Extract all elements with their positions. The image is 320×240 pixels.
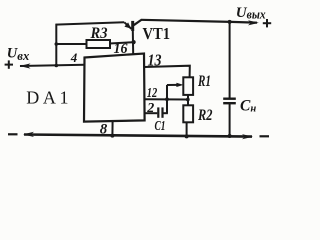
- IC DA1 box: [84, 54, 145, 122]
- svg-text:R2: R2: [197, 107, 212, 124]
- svg-text:Uвых: Uвых: [236, 5, 266, 21]
- transistor VT1 emitter arrow: [124, 22, 131, 28]
- wire Cн bottom branch: [229, 103, 231, 136]
- node pin8 / rail: [110, 134, 114, 138]
- svg-text:R3: R3: [90, 25, 108, 42]
- wire vertical branch from input up to emitter line: [55, 24, 57, 66]
- capacitor Cн: [223, 99, 236, 104]
- node output / Cн: [228, 20, 232, 24]
- wire pin 13 line to R1 top: [145, 66, 190, 78]
- terminal arrow input (left): [20, 63, 31, 68]
- potentiometer R1 wiper arrow: [167, 84, 179, 86]
- node R2 / rail: [185, 134, 189, 138]
- svg-text:R1: R1: [197, 73, 211, 90]
- node R1-R2 / pin12: [186, 98, 190, 102]
- wire R1-R2 link: [187, 95, 189, 106]
- node Cн / rail: [228, 134, 232, 138]
- svg-text:16: 16: [114, 41, 129, 57]
- wire R3 right lead to base node: [110, 42, 134, 43]
- svg-text:Cн: Cн: [240, 97, 256, 114]
- svg-text:VT1: VT1: [143, 24, 171, 43]
- svg-text:2: 2: [146, 101, 154, 116]
- wire pin 2 lead to C1: [145, 112, 158, 114]
- node input tee: [55, 64, 59, 68]
- label + input: [5, 60, 13, 68]
- dash continuation rail left: [8, 133, 18, 135]
- svg-text:C1: C1: [155, 119, 166, 134]
- svg-text:13: 13: [148, 51, 162, 70]
- wire C1 right lead: [163, 112, 168, 114]
- wire pin 12 line: [145, 98, 188, 100]
- node R3 tee: [55, 42, 59, 46]
- wire R2 bottom lead: [186, 122, 188, 136]
- terminal arrow rail left: [23, 132, 34, 137]
- wire base lead / pin 16 stub: [132, 31, 134, 55]
- dash continuation rail right: [260, 135, 270, 137]
- resistor R2: [183, 105, 193, 122]
- svg-text:DA1: DA1: [26, 88, 72, 108]
- wire emitter top run: [56, 22, 125, 24]
- wire collector top line to output: [141, 20, 257, 23]
- wire bottom common rail: [24, 135, 252, 137]
- transistor VT1: [124, 20, 141, 31]
- node pin12 / C1 / wiper: [165, 97, 169, 101]
- wire R3 left lead: [56, 43, 86, 45]
- resistor R3: [87, 40, 111, 48]
- svg-text:Uвх: Uвх: [7, 45, 30, 63]
- wire pin 8 to ground rail: [111, 121, 113, 136]
- svg-text:4: 4: [70, 50, 78, 65]
- resistor R1 (trimmer): [183, 77, 193, 95]
- label + output: [263, 19, 271, 27]
- terminal arrow output (right): [248, 20, 259, 25]
- node base / R3 / pin16: [132, 40, 136, 44]
- svg-text:12: 12: [147, 85, 158, 100]
- wire Cн top branch: [229, 22, 231, 99]
- capacitor C1: [158, 107, 162, 117]
- wire input line Uвх to DA1 pin 4: [20, 65, 85, 66]
- wire wiper riser and C1 riser: [166, 85, 168, 113]
- terminal arrow rail right: [242, 134, 253, 139]
- svg-text:8: 8: [100, 122, 108, 138]
